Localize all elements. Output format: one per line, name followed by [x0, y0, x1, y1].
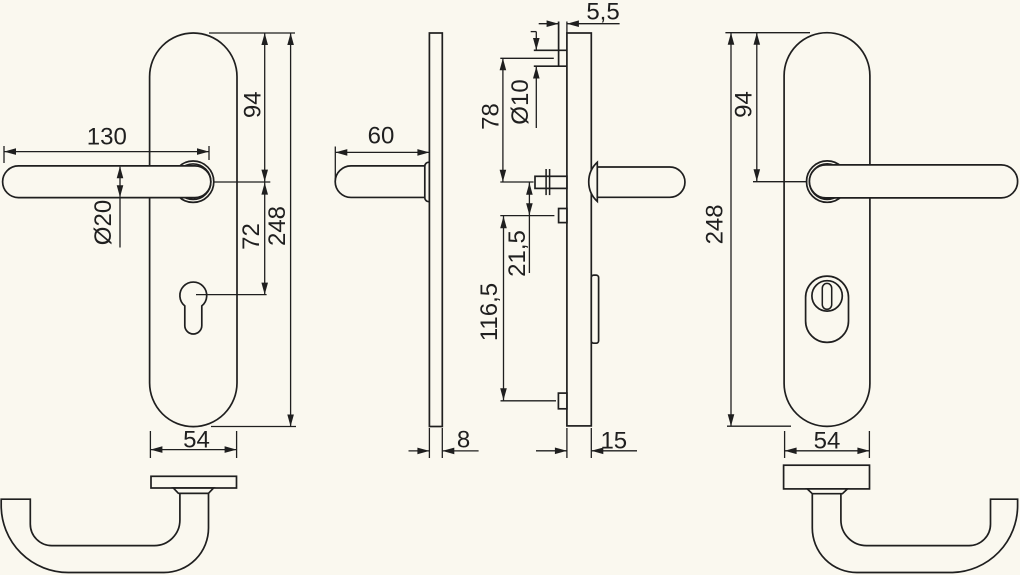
dimension 116,5 (screw spacing) [476, 216, 507, 401]
door handle top view (bottom left) [1, 493, 208, 572]
svg-text:94: 94 [730, 91, 757, 118]
extension line plate top (view 4) [725, 32, 810, 34]
dimension 94 (top to handle axis) [239, 33, 268, 182]
dimension 248 (view 4) [701, 33, 734, 427]
svg-text:248: 248 [264, 206, 291, 246]
security escutcheon oval [806, 276, 849, 342]
lever handle grip (view 1) [3, 166, 211, 198]
svg-text:130: 130 [87, 124, 127, 151]
extension line top screw axis [500, 57, 554, 59]
extension line plate bottom (view 1) [211, 426, 296, 428]
dimension 15 (plate thickness) [536, 428, 637, 459]
backplate side view 8mm (view 2) [429, 33, 442, 427]
extension line plate top (view 1) [209, 32, 295, 34]
handle neck collar (bottom right) [807, 489, 847, 494]
backplate front view (interior, 54x248) [784, 33, 870, 427]
dimension Ø10 (screw head diameter) [507, 32, 540, 128]
extension line handle axis (view 4) [753, 181, 808, 183]
bottom fixing screw head (view 3) [558, 393, 567, 409]
dimension 130 (handle length) [4, 124, 209, 163]
extension line plate face top [566, 22, 568, 34]
backplate edge view 15mm (view 3) [567, 33, 591, 426]
svg-text:54: 54 [183, 427, 210, 454]
dimension 248 (plate height, view 1) [264, 33, 294, 427]
handle hub inner circle (view 1) [175, 164, 211, 200]
cylinder cover plate (view 3) [591, 275, 598, 343]
dimension Ø20 (grip diameter) [90, 166, 123, 247]
svg-text:Ø10: Ø10 [507, 79, 534, 124]
dimension 78 (screw to handle axis) [478, 58, 507, 182]
svg-text:78: 78 [478, 103, 505, 130]
handle hub outer circle (view 4) [807, 161, 848, 202]
svg-text:Ø20: Ø20 [90, 200, 117, 245]
extension line bottom screw axis [501, 400, 557, 402]
svg-text:15: 15 [600, 428, 627, 455]
dimension 60 (handle projection) [335, 123, 429, 181]
spindle break marks [546, 169, 550, 195]
extension line plate bottom (view 4) [727, 425, 791, 427]
handle hub outer circle (view 1) [172, 161, 213, 202]
handle hub inner circle (view 4) [809, 164, 845, 200]
lever grip profile (view 3) [597, 167, 685, 197]
svg-text:8: 8 [457, 427, 470, 454]
dimension 94 (view 4) [730, 33, 760, 182]
dimension 54 (plate width, view 1) [150, 427, 236, 459]
handle collar (view 2) [425, 162, 430, 202]
dimension 54 (view 4) [785, 428, 870, 459]
svg-text:21,5: 21,5 [504, 230, 531, 277]
cylinder cover disc [812, 281, 842, 311]
dimension 72 (handle axis to keyhole) [238, 182, 268, 295]
svg-text:5,5: 5,5 [586, 0, 619, 26]
door handle top view (bottom right) [812, 494, 1017, 573]
extension line handle axis (view 3) [500, 181, 533, 183]
dimension 21,5 (handle axis to screw) [504, 182, 533, 277]
svg-text:94: 94 [239, 91, 266, 118]
screwdriver slot [822, 283, 831, 309]
extension line middle screw axis [500, 215, 554, 217]
handle collar (view 3) [589, 162, 598, 201]
svg-text:248: 248 [701, 204, 728, 244]
rose plate end view (bottom right) [784, 465, 870, 489]
lever grip side profile (view 2) [335, 166, 425, 198]
svg-text:60: 60 [368, 123, 395, 150]
backplate front view (exterior, 54x248) [150, 33, 237, 427]
middle fixing screw head (view 3) [559, 209, 567, 223]
rose plate end view (bottom left) [151, 476, 237, 488]
spindle (square pin) [535, 176, 567, 188]
extension line handle axis (view 1) [214, 181, 270, 183]
handle neck collar (bottom left) [173, 488, 213, 493]
svg-text:116,5: 116,5 [476, 283, 503, 341]
extension line keyhole axis [196, 294, 267, 296]
svg-text:72: 72 [238, 223, 265, 250]
lever handle grip (view 4) [809, 165, 1017, 198]
euro-profile keyhole [180, 282, 207, 334]
top fixing screw head (view 3) [534, 22, 567, 67]
dimension 5,5 (screw head protrusion) [539, 0, 620, 27]
svg-text:54: 54 [814, 428, 841, 455]
dimension 8 (plate thickness) [409, 427, 479, 459]
